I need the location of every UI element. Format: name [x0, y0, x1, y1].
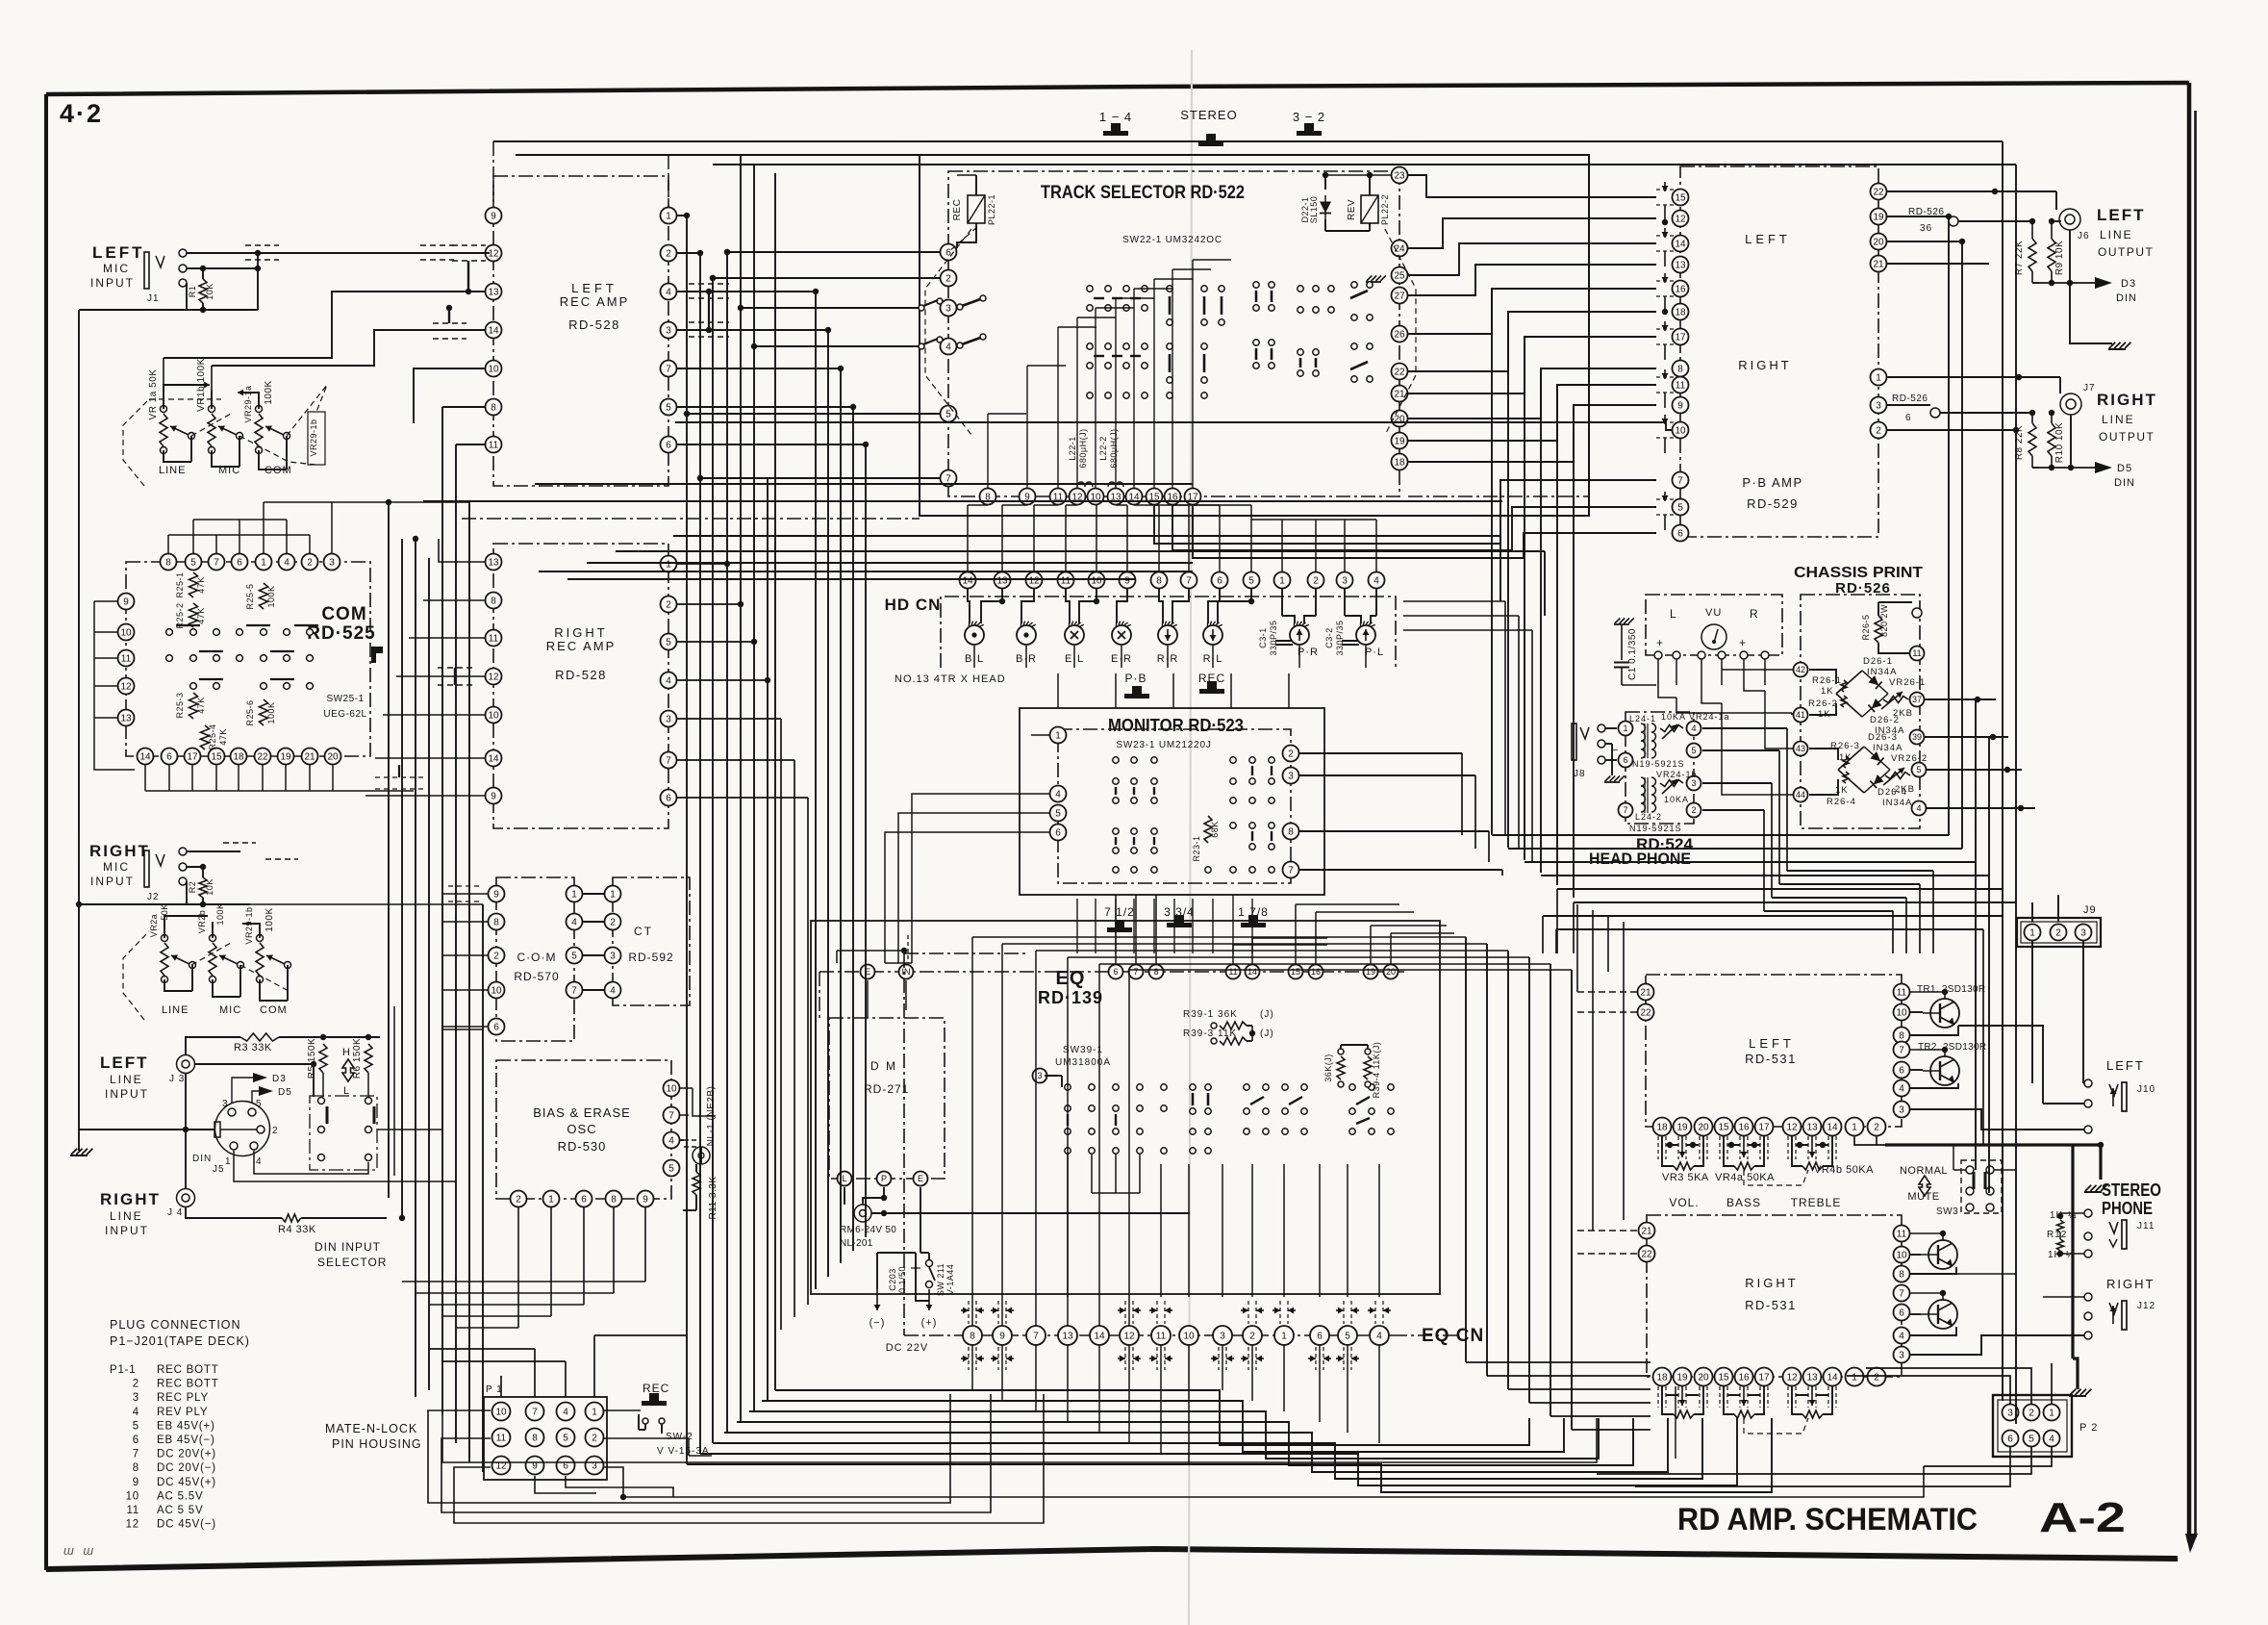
svg-text:0.1/50: 0.1/50 — [897, 1266, 907, 1293]
tape head B-R — [1017, 625, 1036, 645]
wires J10 J11 J12 connections — [1910, 1109, 2084, 1130]
ground near P2 — [2070, 1389, 2076, 1395]
svg-text:5: 5 — [563, 1434, 568, 1444]
svg-text:8: 8 — [1156, 576, 1162, 587]
pin 1 J9 — [2025, 925, 2041, 941]
VU terminal — [1698, 651, 1705, 659]
wires J9 pins up — [2057, 895, 2059, 922]
pin 12 PB AMP left — [1673, 211, 1689, 227]
svg-text:PLUG CONNECTION: PLUG CONNECTION — [110, 1318, 241, 1332]
svg-text:R39-3 11K: R39-3 11K — [1183, 1028, 1237, 1039]
pin E DM RD-271 bottom — [914, 1172, 928, 1186]
pin 9 PB AMP left — [1673, 397, 1689, 414]
tape head R-L — [1203, 625, 1222, 645]
pin 5 MONITOR left — [1050, 805, 1067, 822]
svg-text:5: 5 — [666, 638, 671, 648]
node 11 chassis print — [1910, 647, 1925, 661]
pin 7 P1 row1 — [526, 1403, 544, 1421]
svg-text:12: 12 — [1123, 1332, 1135, 1342]
pin 9 P1 row3 — [526, 1457, 544, 1475]
wire bus B2 verticals (center-left corridor) — [686, 216, 688, 1464]
pin 4 MONITOR left — [1050, 786, 1067, 802]
connector P2 — [1993, 1395, 2072, 1457]
svg-text:C3-2: C3-2 — [1324, 627, 1334, 648]
svg-text:1: 1 — [1852, 1373, 1857, 1384]
svg-text:J6: J6 — [2078, 231, 2090, 241]
wires chassis print left nodes to VU — [1676, 697, 1792, 698]
dashed gang lines VR1 — [123, 399, 149, 486]
wires EQ CN pins up through EQ to corridor — [971, 937, 973, 1326]
svg-text:19: 19 — [280, 752, 291, 763]
svg-text:D26-1: D26-1 — [1863, 656, 1893, 667]
wire J3 to J4 vertical — [185, 1074, 187, 1189]
pin 10 EQ CN — [1179, 1326, 1198, 1345]
svg-text:19: 19 — [1676, 1123, 1688, 1133]
svg-text:RIGHT: RIGHT — [89, 842, 150, 860]
connector J9 — [2017, 918, 2101, 947]
svg-text:N19-5921S: N19-5921S — [1632, 759, 1685, 769]
svg-text:9: 9 — [491, 792, 496, 802]
pin 10 BIAS OSC right — [664, 1080, 680, 1097]
pin 1 LEFT RD-531 bottom — [1846, 1118, 1864, 1136]
jack J12 — [2084, 1293, 2092, 1301]
jack J3 — [177, 1055, 195, 1074]
pin 12 EQ CN — [1120, 1326, 1139, 1345]
pin 3 TRACK SELECTOR left — [941, 300, 957, 317]
pin 14 LEFT REC AMP left — [486, 322, 502, 339]
svg-text:VOL.: VOL. — [1669, 1196, 1699, 1209]
block COM RD-525 — [126, 562, 370, 756]
wires TRACK SELECTOR left pins — [727, 251, 940, 253]
pin 20 EQ top — [1384, 965, 1399, 979]
wire staircase 3 — [737, 1418, 1633, 1465]
switch matrix SW23-1 — [1113, 757, 1119, 763]
block CHASSIS PRINT RD-526 — [1801, 595, 1920, 828]
node 5 chassis print — [1912, 763, 1927, 777]
svg-text:VR29-1b: VR29-1b — [309, 419, 318, 456]
wires J1 — [187, 252, 490, 254]
svg-text:J2: J2 — [147, 892, 160, 902]
pin 3 LEFT RD-531 right — [1894, 1102, 1910, 1118]
svg-text:6: 6 — [237, 558, 242, 569]
svg-text:10: 10 — [488, 365, 499, 375]
pin L DM RD-271 bottom — [838, 1172, 852, 1186]
ground J8 — [1605, 743, 1612, 745]
svg-text:VR24-1b: VR24-1b — [1656, 770, 1698, 779]
VU meter block — [1646, 595, 1782, 655]
dashed gang lines VR2 — [123, 931, 149, 1020]
pin 20 COM RD-525 bottom — [325, 749, 341, 765]
svg-text:1: 1 — [2049, 1409, 2054, 1419]
svg-text:1: 1 — [1876, 373, 1881, 384]
pin 10 PB AMP left — [1673, 422, 1689, 439]
pin 19 LEFT RD-531 bottom — [1674, 1118, 1692, 1136]
left lower corridor verticals — [393, 1006, 395, 1176]
pin 16 TRACK SELECTOR bottom — [1165, 489, 1181, 505]
svg-text:6: 6 — [1899, 1308, 1904, 1319]
svg-text:RIGHT: RIGHT — [1745, 1276, 1798, 1290]
svg-text:COM: COM — [260, 1004, 288, 1016]
svg-text:15: 15 — [1718, 1373, 1729, 1384]
pin 23 TRACK SELECTOR right — [1392, 167, 1408, 184]
svg-text:P: P — [881, 1174, 887, 1183]
pin 2 LEFT RD-531 bottom — [1868, 1118, 1886, 1136]
wires heads down to HD CN box bottom — [973, 646, 975, 668]
pin 9 EQ CN — [993, 1326, 1012, 1345]
svg-text:MONITOR RD·523: MONITOR RD·523 — [1108, 716, 1244, 735]
resistor R25-3 47K — [189, 693, 198, 719]
pin 17 PB AMP left — [1673, 329, 1689, 345]
svg-text:11: 11 — [1061, 576, 1071, 587]
pin 14 COM RD-525 bottom — [138, 749, 154, 765]
pin 14 LEFT RD-531 bottom — [1824, 1118, 1842, 1136]
svg-text:11: 11 — [489, 441, 499, 451]
svg-text:1: 1 — [1623, 724, 1627, 733]
svg-text:INPUT: INPUT — [105, 1224, 149, 1237]
svg-text:R39-4 11K(J): R39-4 11K(J) — [1372, 1042, 1381, 1099]
svg-text:4: 4 — [1376, 1332, 1382, 1342]
wire y940 long left — [250, 903, 483, 905]
wire top line from bus to PB AMP — [675, 422, 1672, 430]
extra left horizontals mid — [365, 538, 493, 540]
svg-text:1: 1 — [666, 212, 671, 222]
svg-text:LEFT: LEFT — [92, 243, 145, 262]
svg-text:C1 0.1/350: C1 0.1/350 — [1627, 628, 1638, 680]
pot VR26-2 2KB — [1885, 773, 1910, 779]
svg-text:RD-530: RD-530 — [558, 1139, 607, 1154]
svg-text:19: 19 — [1676, 1373, 1688, 1384]
lamp RM6-24V 50 NL-201 — [854, 1205, 871, 1222]
svg-text:10K: 10K — [205, 878, 214, 896]
svg-text:R: R — [1750, 607, 1759, 621]
svg-text:7: 7 — [1623, 805, 1627, 815]
svg-text:EB 45V(+): EB 45V(+) — [157, 1420, 215, 1432]
resistor R9 10K — [2048, 239, 2055, 271]
svg-text:12: 12 — [1028, 576, 1040, 587]
horizontal bus H1 below track selector — [535, 483, 1193, 485]
jack J10 — [2084, 1079, 2092, 1087]
switch contacts SW25-1 row a — [166, 629, 173, 636]
svg-text:2: 2 — [592, 1434, 597, 1444]
svg-text:8: 8 — [493, 918, 499, 928]
svg-text:HD CN: HD CN — [885, 596, 942, 614]
svg-text:6: 6 — [1899, 1066, 1904, 1077]
svg-text:STEREO: STEREO — [2102, 1181, 2161, 1200]
shield symbols near LEFT REC AMP pins 12-13 — [452, 244, 486, 246]
svg-text:13: 13 — [1675, 261, 1686, 271]
svg-text:MIC: MIC — [103, 262, 130, 275]
pin 11 LEFT REC AMP left — [486, 437, 502, 453]
svg-text:5: 5 — [945, 410, 951, 420]
pin 1 CT RD-592 left — [605, 886, 621, 902]
shield symbols PB AMP left pins — [1656, 189, 1674, 190]
svg-text:R26-3: R26-3 — [1830, 741, 1860, 751]
pin 5 P2 bottom — [2024, 1431, 2040, 1447]
svg-text:J8: J8 — [1574, 769, 1586, 779]
pin 2 LEFT REC AMP right — [661, 245, 677, 262]
svg-text:14: 14 — [1094, 1332, 1105, 1342]
pin 2 RIGHT RD-531 bottom — [1868, 1368, 1886, 1386]
svg-text:20: 20 — [327, 752, 339, 763]
pin 12 RIGHT REC AMP left — [486, 669, 502, 685]
svg-text:6: 6 — [133, 1435, 139, 1446]
svg-text:D3: D3 — [272, 1074, 287, 1084]
svg-text:LEFT: LEFT — [2097, 206, 2146, 224]
pin 4 CT RD-592 left — [605, 982, 621, 999]
svg-text:R26-4: R26-4 — [1827, 797, 1856, 807]
shielded-wire symbols above EQ CN — [968, 1301, 970, 1324]
svg-text:5: 5 — [1916, 765, 1921, 774]
wire thick ground bus right — [1885, 1145, 2101, 1180]
svg-text:680μH(J): 680μH(J) — [1078, 428, 1088, 468]
pin 11 EQ CN — [1151, 1326, 1171, 1345]
svg-text:6: 6 — [666, 794, 671, 804]
svg-text:8: 8 — [970, 1332, 975, 1342]
svg-text:2: 2 — [1874, 1373, 1879, 1384]
svg-text:R26-5: R26-5 — [1861, 614, 1871, 640]
pin 8 EQ CN — [963, 1326, 982, 1345]
pin 5 PB AMP left — [1673, 499, 1689, 516]
wires PB AMP right lower pins to B4 — [1886, 216, 1949, 217]
svg-text:R25-5: R25-5 — [245, 583, 255, 609]
wires P1 top pins up — [500, 1376, 502, 1402]
pin 16 PB AMP left — [1673, 281, 1689, 297]
svg-text:18: 18 — [1394, 458, 1405, 469]
svg-text:39: 39 — [1912, 732, 1922, 742]
block CT RD-592 — [613, 877, 690, 1005]
shield dashes J1 line — [245, 244, 279, 246]
resistor R10 10K — [2048, 423, 2055, 456]
pin 6 TRACK SELECTOR left — [941, 244, 957, 261]
wires EQ CN pins down to staircase — [971, 1345, 973, 1390]
wires headphone block right pins — [1702, 727, 1787, 729]
arrow to (-) supply — [876, 1289, 878, 1310]
svg-text:R1: R1 — [188, 286, 197, 298]
pin 10 HD CN — [1089, 572, 1105, 589]
wire staircase 6 — [700, 1418, 1737, 1485]
pin 18 TRACK SELECTOR right — [1392, 454, 1408, 470]
svg-text:REV: REV — [1347, 199, 1357, 220]
pin 12 LEFT REC AMP left — [486, 245, 502, 262]
svg-text:UM31800A: UM31800A — [1055, 1057, 1111, 1068]
jack J11 — [2084, 1209, 2092, 1217]
pin 6 HD CN — [1212, 572, 1228, 589]
wires monitor top to HD CN — [1057, 673, 1059, 708]
resistor R5 150K — [319, 1044, 327, 1073]
svg-text:12: 12 — [1786, 1373, 1798, 1384]
pin 20 LEFT RD-531 bottom — [1695, 1118, 1713, 1136]
pin 11 P1 row2 — [492, 1429, 511, 1447]
pin 3 J9 — [2076, 925, 2092, 941]
svg-text:R10 10K: R10 10K — [2054, 422, 2065, 463]
svg-text:3: 3 — [222, 1099, 229, 1109]
svg-text:22: 22 — [1873, 188, 1884, 198]
svg-text:5: 5 — [668, 1164, 674, 1175]
arrow to (+) supply — [928, 1289, 930, 1310]
pin 18 PB AMP left — [1673, 304, 1689, 320]
node 41 chassis print — [1794, 708, 1808, 723]
svg-text:2: 2 — [1876, 426, 1881, 437]
wires TRACK SELECTOR right pins to PB AMP left pins — [1408, 175, 1656, 197]
svg-text:5: 5 — [1345, 1332, 1350, 1342]
node 4 chassis print — [1912, 801, 1927, 816]
pin 5 LEFT REC AMP right — [661, 399, 677, 416]
pin 8 LEFT RD-531 right — [1894, 1028, 1910, 1044]
svg-text:8: 8 — [491, 403, 496, 414]
svg-text:J11: J11 — [2137, 1221, 2155, 1231]
pin 5 RIGHT REC AMP right — [661, 634, 677, 650]
selector switch SW DIN — [310, 1096, 377, 1170]
svg-text:330P/35: 330P/35 — [1269, 620, 1278, 655]
pin 5 EQ CN — [1338, 1326, 1357, 1345]
svg-text:BIAS & ERASE: BIAS & ERASE — [533, 1105, 631, 1120]
pin 15 PB AMP left — [1673, 190, 1689, 206]
svg-text:RIGHT: RIGHT — [2106, 1277, 2155, 1291]
svg-text:J 3: J 3 — [169, 1074, 185, 1084]
svg-text:10: 10 — [495, 1408, 507, 1418]
pin 12 RIGHT RD-531 bottom — [1783, 1368, 1802, 1386]
pin 2 RD-524 — [1687, 803, 1701, 818]
jack J2 — [144, 851, 149, 887]
wires bridge 2 — [1809, 749, 1838, 760]
svg-text:REC: REC — [952, 199, 963, 221]
svg-text:REC AMP: REC AMP — [546, 639, 617, 653]
pin 15 COM RD-525 bottom — [209, 749, 225, 765]
pin 4 LEFT RD-531 right — [1894, 1080, 1910, 1097]
svg-text:OUTPUT: OUTPUT — [2099, 430, 2155, 444]
svg-text:8: 8 — [165, 558, 171, 569]
svg-text:12: 12 — [1786, 1123, 1798, 1133]
pin E EQ top — [861, 965, 875, 979]
svg-text:9: 9 — [491, 212, 496, 222]
svg-text:V-1A44: V-1A44 — [945, 1264, 955, 1296]
svg-text:2: 2 — [272, 1126, 279, 1136]
svg-text:C·O·M: C·O·M — [517, 951, 557, 964]
wire staircase 1 — [762, 1401, 1564, 1452]
svg-text:DC 45V(−): DC 45V(−) — [157, 1519, 216, 1531]
svg-text:L: L — [842, 1174, 846, 1183]
svg-text:REC PLY: REC PLY — [157, 1392, 209, 1404]
switch wiper bars left — [962, 298, 983, 306]
svg-text:REC: REC — [643, 1382, 669, 1395]
svg-text:11: 11 — [489, 634, 499, 645]
svg-text:10: 10 — [491, 986, 502, 997]
pin 13 COM RD-525 left — [118, 710, 135, 726]
svg-text:7: 7 — [133, 1449, 139, 1460]
switch SW211 V-1A44 — [926, 1260, 933, 1267]
pin 11 HD CN — [1058, 572, 1074, 589]
transformer L24-1 N19-5921S — [1641, 724, 1646, 758]
pot VR1b 100K — [208, 414, 215, 446]
svg-text:16: 16 — [1738, 1373, 1750, 1384]
svg-text:6: 6 — [1055, 828, 1061, 839]
wires J9 down — [1910, 941, 2032, 992]
pin 6 RD-524 — [1619, 753, 1633, 768]
block RIGHT REC AMP RD-528 — [493, 544, 668, 828]
svg-text:6: 6 — [1317, 1332, 1323, 1342]
pin 4 RIGHT RD-531 right — [1894, 1328, 1910, 1344]
pin 10 COM RD-525 left — [118, 624, 135, 641]
svg-text:NL-201: NL-201 — [840, 1238, 873, 1249]
svg-text:1: 1 — [1852, 1123, 1857, 1133]
tape head E-L — [1065, 625, 1084, 645]
resistor R23-1 68K — [1204, 816, 1212, 843]
switch matrix SW22-1 contacts — [1087, 286, 1093, 292]
svg-text:42: 42 — [1796, 665, 1805, 674]
svg-text:8: 8 — [491, 597, 496, 607]
block LEFT RD-531 — [1646, 975, 1902, 1127]
svg-text:100K: 100K — [264, 380, 274, 404]
pin 3 PB AMP right — [1871, 397, 1887, 414]
pin 7 COM RD-525 top — [209, 554, 225, 571]
pin 2 J9 — [2051, 925, 2067, 941]
resistor R39-2 36K(J) — [1337, 1056, 1345, 1079]
tape head B-L — [965, 625, 984, 645]
boxed label VR29-1b — [308, 412, 325, 465]
node 37 chassis print — [1910, 693, 1925, 707]
svg-text:12: 12 — [488, 673, 499, 683]
svg-text:J12: J12 — [2137, 1301, 2155, 1311]
svg-text:8: 8 — [1153, 967, 1158, 977]
connector P1 — [484, 1397, 607, 1480]
pin 4 EQ CN — [1370, 1326, 1389, 1345]
dashed details below COM RD-525 — [375, 776, 423, 778]
svg-text:17: 17 — [1675, 333, 1686, 343]
pin 8 BIAS OSC bottom — [606, 1191, 622, 1207]
svg-text:10KA: 10KA — [1664, 795, 1689, 804]
pin 13 RIGHT RD-531 bottom — [1803, 1368, 1822, 1386]
svg-text:22: 22 — [257, 752, 268, 763]
pin 8 PB AMP left — [1673, 361, 1689, 377]
pin 22 PB AMP right — [1871, 184, 1887, 200]
dash-dot extension TS inner bottom — [1408, 495, 1589, 497]
volume pot RIGHT — [1657, 1386, 1659, 1408]
pin 6 PB AMP left — [1673, 525, 1689, 542]
svg-text:14: 14 — [1827, 1123, 1838, 1133]
pin 8 HD CN — [1151, 572, 1168, 589]
svg-text:PL22-2: PL22-2 — [1380, 194, 1390, 225]
svg-text:NO.13 4TR X HEAD: NO.13 4TR X HEAD — [895, 673, 1006, 685]
svg-text:17: 17 — [1758, 1123, 1770, 1133]
pin 1 P2 top — [2044, 1405, 2060, 1421]
svg-text:RD-529: RD-529 — [1747, 496, 1799, 511]
resistor R25-1 47K — [189, 572, 198, 597]
shield near COM RD-570 pin 9 — [448, 885, 481, 887]
svg-text:IN34A: IN34A — [1867, 667, 1897, 677]
pin 2 EQ CN — [1243, 1326, 1262, 1345]
pot VR1a 50K — [160, 414, 167, 446]
pin 13 EQ CN — [1058, 1326, 1077, 1345]
svg-text:CHASSIS PRINT: CHASSIS PRINT — [1794, 565, 1923, 581]
svg-text:20: 20 — [1386, 967, 1396, 977]
pin 4 HD CN — [1369, 572, 1385, 589]
svg-text:4·2: 4·2 — [60, 99, 103, 128]
pin 16 EQ top — [1309, 965, 1323, 979]
svg-text:14: 14 — [488, 326, 499, 337]
svg-text:47K: 47K — [196, 697, 206, 714]
wires BIAS right pins to NL-1 — [680, 1087, 693, 1089]
pin 1 LEFT REC AMP right — [661, 208, 677, 224]
lamp PL22-2 REV — [1361, 195, 1378, 223]
svg-text:NORMAL: NORMAL — [1900, 1165, 1948, 1177]
pin 4 P1 row1 — [557, 1403, 575, 1421]
pin 3 RIGHT RD-531 right — [1894, 1347, 1910, 1363]
wires LEFT REC AMP left pins to left area — [164, 292, 485, 358]
svg-text:−: − — [1612, 745, 1619, 756]
page fold line — [1189, 50, 1192, 1625]
switch contacts SW25-1 row b — [166, 655, 173, 662]
pin 8 LEFT REC AMP left — [486, 399, 502, 416]
